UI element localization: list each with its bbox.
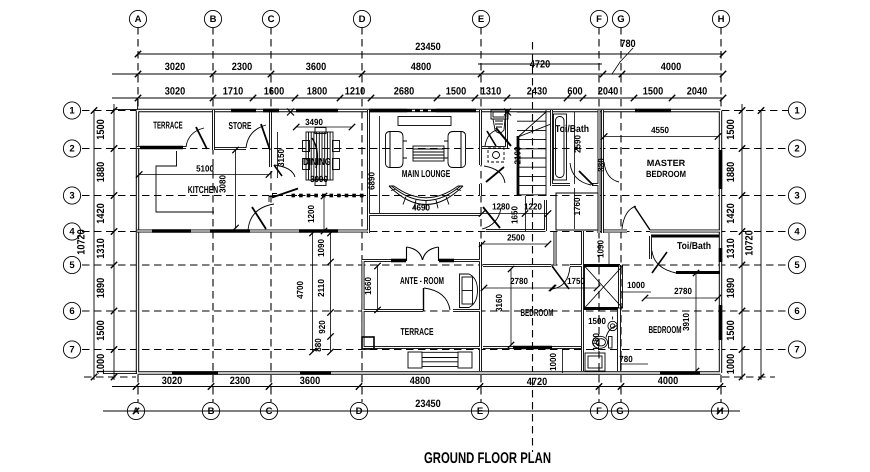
window X marker bbox=[287, 109, 294, 116]
door toibath1 bbox=[570, 163, 591, 185]
svg-text:4720: 4720 bbox=[527, 376, 547, 388]
svg-text:1500: 1500 bbox=[446, 86, 466, 98]
window bottom a bbox=[172, 371, 218, 375]
svg-text:5: 5 bbox=[69, 260, 75, 271]
jamb french door right bbox=[439, 259, 454, 263]
svg-text:ANTE - ROOM: ANTE - ROOM bbox=[400, 276, 444, 287]
svg-text:1890: 1890 bbox=[95, 278, 107, 298]
svg-text:C: C bbox=[268, 14, 275, 25]
grid row bottom stub left bbox=[84, 376, 136, 378]
svg-text:4: 4 bbox=[794, 227, 800, 238]
grid bubble 5 left bbox=[63, 256, 80, 273]
svg-text:F: F bbox=[596, 406, 602, 417]
grid bubble H top bbox=[712, 10, 729, 27]
grid bubble 2 right bbox=[788, 140, 805, 157]
svg-text:D: D bbox=[359, 14, 366, 25]
svg-text:2680: 2680 bbox=[394, 86, 414, 98]
svg-text:1090: 1090 bbox=[596, 240, 606, 258]
svg-text:G: G bbox=[616, 406, 623, 417]
dim 1000 hall bbox=[621, 291, 651, 293]
svg-text:TERRACE: TERRACE bbox=[401, 327, 434, 338]
chain tick marks bbox=[135, 51, 141, 57]
terrace steps right block bbox=[458, 352, 472, 368]
svg-text:1: 1 bbox=[794, 106, 800, 117]
STAIRS bbox=[517, 110, 623, 308]
dining chair bottom bbox=[315, 180, 326, 186]
svg-text:1000: 1000 bbox=[627, 280, 645, 290]
dim 1650 bbox=[525, 196, 527, 231]
door terrace-kitchen bbox=[186, 128, 204, 147]
svg-text:1880: 1880 bbox=[95, 162, 107, 182]
grid column F bbox=[598, 27, 600, 402]
dining chairs right bbox=[333, 141, 340, 152]
svg-text:10720: 10720 bbox=[76, 229, 88, 255]
svg-text:3600: 3600 bbox=[306, 61, 326, 73]
bathtub toibath1 bbox=[554, 114, 567, 180]
svg-text:B: B bbox=[210, 14, 217, 25]
grid bubble 1 right bbox=[788, 102, 805, 119]
bottom dim line total 23450 bbox=[103, 410, 740, 412]
svg-text:2: 2 bbox=[69, 144, 74, 155]
svg-text:2590: 2590 bbox=[573, 135, 583, 153]
window master top bbox=[635, 109, 671, 113]
stair lower flight box with cross bbox=[585, 266, 623, 308]
svg-text:1000: 1000 bbox=[548, 353, 558, 371]
svg-text:1600: 1600 bbox=[264, 86, 284, 98]
svg-text:1090: 1090 bbox=[316, 239, 326, 257]
dining chairs left bbox=[303, 141, 310, 152]
tv cabinet lounge bbox=[398, 117, 451, 126]
right dim line total 10720 bbox=[760, 110, 762, 380]
window dining top bbox=[296, 109, 338, 113]
svg-text:3: 3 bbox=[69, 191, 74, 202]
svg-text:3160: 3160 bbox=[494, 294, 504, 312]
grid row 3 bbox=[82, 195, 788, 197]
grid bubble D bottom bbox=[350, 402, 367, 419]
grid row bottom stub right bbox=[722, 376, 775, 378]
svg-text:3490: 3490 bbox=[305, 117, 323, 127]
svg-text:1500: 1500 bbox=[643, 86, 663, 98]
svg-text:2110: 2110 bbox=[316, 279, 326, 297]
svg-text:BEDROOM: BEDROOM bbox=[649, 325, 682, 336]
dim 1000 below bedroom1 bbox=[562, 350, 564, 373]
top dim line total 23450 bbox=[138, 53, 723, 55]
svg-text:3080: 3080 bbox=[218, 175, 228, 193]
svg-text:MAIN LOUNGE: MAIN LOUNGE bbox=[402, 169, 451, 180]
grid bubble 6 left bbox=[63, 302, 80, 319]
svg-text:3020: 3020 bbox=[165, 86, 185, 98]
grid bubble C top bbox=[262, 10, 279, 27]
grid column H bbox=[720, 27, 722, 402]
grid column A bbox=[137, 27, 139, 402]
grid column B bbox=[212, 27, 214, 402]
closet below toilet-bath 1 bbox=[556, 193, 598, 230]
svg-text:3910: 3910 bbox=[681, 313, 691, 331]
svg-text:2430: 2430 bbox=[527, 86, 547, 98]
bottom dim line spans bbox=[112, 386, 726, 388]
svg-text:1500: 1500 bbox=[725, 119, 737, 139]
door wc lobby bbox=[484, 166, 505, 183]
svg-text:4: 4 bbox=[69, 227, 75, 238]
grid bubble B bottom bbox=[202, 402, 219, 419]
serving hatch leaf bold bbox=[272, 189, 298, 198]
svg-text:Toi/Bath: Toi/Bath bbox=[677, 241, 711, 252]
grid bubble 3 left bbox=[63, 187, 80, 204]
window store top bbox=[231, 109, 256, 113]
leader line 780 top bbox=[612, 48, 633, 74]
svg-text:4690: 4690 bbox=[412, 203, 430, 213]
window kitchen row4 a bbox=[152, 229, 191, 233]
grid row 5 bbox=[82, 264, 788, 266]
svg-text:1500: 1500 bbox=[588, 316, 606, 326]
svg-text:780: 780 bbox=[620, 38, 635, 50]
pass-through railing bbox=[272, 195, 366, 197]
svg-text:10720: 10720 bbox=[744, 230, 756, 256]
terrace steps treads bbox=[422, 352, 458, 366]
door toibath2 bbox=[652, 251, 676, 273]
armchair left bbox=[390, 132, 403, 168]
stair up arrow diagonal bbox=[518, 112, 551, 137]
svg-text:5100: 5100 bbox=[196, 164, 214, 174]
svg-text:2040: 2040 bbox=[687, 86, 707, 98]
svg-text:1750: 1750 bbox=[567, 276, 585, 286]
grid bubble 3 right bbox=[788, 187, 805, 204]
stair stringer bold bbox=[517, 136, 520, 196]
grid bubble 6 right bbox=[788, 302, 805, 319]
svg-text:1760: 1760 bbox=[572, 198, 582, 216]
svg-text:1280: 1280 bbox=[591, 333, 601, 351]
dim 3910 bbox=[695, 273, 697, 371]
svg-text:E: E bbox=[478, 14, 484, 25]
dim 1660 ante bbox=[377, 266, 379, 310]
wc top bowl bbox=[493, 119, 505, 133]
dim 2590 bbox=[574, 112, 576, 184]
grid column E bbox=[480, 27, 482, 402]
INTERIOR DIMS bbox=[136, 112, 721, 374]
door master bottom bbox=[622, 206, 636, 229]
svg-text:1280: 1280 bbox=[492, 202, 510, 212]
GRID-DASHES bbox=[82, 27, 788, 452]
grid row 4 bbox=[82, 231, 788, 233]
ground line extension bottom-left bbox=[103, 371, 137, 373]
svg-text:F: F bbox=[596, 14, 602, 25]
sink small bath bbox=[608, 321, 617, 330]
svg-text:23450: 23450 bbox=[415, 398, 441, 410]
svg-text:1000: 1000 bbox=[725, 354, 737, 374]
grid bubble D top bbox=[353, 10, 370, 27]
svg-text:1420: 1420 bbox=[95, 203, 107, 223]
svg-text:H: H bbox=[717, 406, 724, 417]
svg-text:3020: 3020 bbox=[165, 61, 185, 73]
svg-text:600: 600 bbox=[567, 86, 582, 98]
svg-text:2780: 2780 bbox=[510, 276, 528, 286]
svg-text:1310: 1310 bbox=[481, 86, 501, 98]
grid bubble E bottom bbox=[471, 402, 488, 419]
terrace steps left block bbox=[408, 352, 422, 368]
jamb french door left bbox=[391, 259, 406, 263]
svg-text:1650: 1650 bbox=[510, 206, 520, 224]
ROOM TEXTS bbox=[153, 117, 711, 371]
svg-text:2780: 2780 bbox=[674, 286, 692, 296]
svg-text:4720: 4720 bbox=[530, 59, 550, 71]
grid bubble 1 left bbox=[63, 102, 80, 119]
section line bbox=[532, 42, 534, 452]
svg-text:4000: 4000 bbox=[658, 375, 678, 387]
svg-text:1210: 1210 bbox=[345, 86, 365, 98]
niche ante-room bbox=[460, 274, 478, 308]
svg-text:330: 330 bbox=[596, 158, 606, 171]
wall interior double lines bbox=[137, 110, 720, 371]
svg-text:2: 2 bbox=[794, 144, 799, 155]
door wc top bbox=[485, 130, 497, 146]
window lounge mullion dashes bbox=[407, 110, 436, 112]
window toibath2 right bbox=[719, 248, 723, 262]
svg-text:4700: 4700 bbox=[295, 281, 305, 299]
wc door leaf bold bbox=[496, 128, 511, 146]
dim 3150 bbox=[277, 132, 279, 178]
svg-text:D: D bbox=[356, 406, 363, 417]
dim 1750 bbox=[552, 287, 597, 289]
grid bubble E top bbox=[472, 10, 489, 27]
grid bubble G bottom bbox=[611, 402, 628, 419]
grid bubble A bottom bbox=[127, 402, 144, 419]
french double door right bbox=[423, 247, 439, 261]
right dim line segments bbox=[741, 104, 743, 380]
grid bubble G top bbox=[612, 10, 629, 27]
dim 1760 bbox=[574, 188, 576, 229]
grid column G bbox=[620, 27, 622, 402]
svg-text:1880: 1880 bbox=[725, 162, 737, 182]
door lounge-corridor bbox=[482, 208, 501, 229]
door small bath bbox=[606, 326, 618, 338]
svg-text:1: 1 bbox=[69, 106, 75, 117]
svg-text:A: A bbox=[133, 406, 140, 417]
svg-text:4800: 4800 bbox=[411, 61, 431, 73]
tick marks top chains bbox=[91, 51, 764, 414]
svg-text:1200: 1200 bbox=[306, 205, 316, 223]
window bottom c bbox=[660, 371, 700, 375]
svg-text:1660: 1660 bbox=[363, 277, 373, 295]
svg-text:BEDROOM: BEDROOM bbox=[646, 169, 686, 179]
svg-text:E: E bbox=[477, 406, 483, 417]
grid column C bbox=[270, 27, 272, 402]
svg-text:3150: 3150 bbox=[276, 149, 286, 167]
svg-text:7: 7 bbox=[69, 345, 74, 356]
svg-text:6: 6 bbox=[794, 306, 799, 317]
window row4 c bbox=[299, 229, 338, 233]
svg-text:MASTER: MASTER bbox=[647, 158, 686, 168]
svg-text:6: 6 bbox=[69, 306, 74, 317]
window lounge top 2 bbox=[436, 109, 476, 113]
svg-text:1310: 1310 bbox=[95, 238, 107, 258]
svg-text:1420: 1420 bbox=[725, 203, 737, 223]
dim 2780 bedroom2 bbox=[645, 297, 718, 299]
svg-text:3: 3 bbox=[794, 191, 799, 202]
svg-text:BEDROOM: BEDROOM bbox=[521, 308, 554, 319]
window bar C-D extra bbox=[263, 109, 279, 113]
dim 6890 bbox=[379, 116, 381, 213]
svg-text:1500: 1500 bbox=[95, 119, 107, 139]
sink dashed top bbox=[488, 148, 504, 162]
DOORS bbox=[186, 124, 676, 338]
wall exterior outline bbox=[138, 111, 721, 374]
window bottom b bbox=[300, 371, 331, 375]
wc top tank bbox=[491, 110, 508, 119]
window X marker E bbox=[504, 109, 511, 116]
curved sofa bbox=[389, 186, 463, 205]
dim garage segments bbox=[330, 233, 332, 352]
grid bubble 4 left bbox=[63, 223, 80, 240]
grid row 6 bbox=[82, 310, 788, 312]
french double door left bbox=[407, 247, 423, 261]
svg-text:2040: 2040 bbox=[598, 86, 618, 98]
grid bubble B top bbox=[204, 10, 221, 27]
WINDOWS (thick bars) bbox=[140, 109, 721, 374]
serving hatch step wall bbox=[269, 194, 277, 203]
svg-text:920: 920 bbox=[317, 320, 327, 333]
svg-text:1800: 1800 bbox=[307, 86, 327, 98]
top dim line segments bbox=[112, 97, 723, 99]
svg-text:DINING: DINING bbox=[303, 157, 331, 168]
svg-text:1500: 1500 bbox=[95, 320, 107, 340]
dim 3080 kitchen bbox=[235, 150, 237, 228]
dim 4700 garage total bbox=[312, 233, 314, 352]
grid bubble 5 right bbox=[788, 256, 805, 273]
door store-dining side bbox=[274, 165, 295, 177]
pillar at terrace corner bbox=[362, 337, 374, 349]
BUBBLES bbox=[63, 10, 805, 419]
dining table bbox=[306, 132, 333, 180]
svg-text:TERRACE: TERRACE bbox=[153, 121, 183, 132]
grid bubble 2 left bbox=[63, 140, 80, 157]
svg-text:1000: 1000 bbox=[95, 354, 107, 374]
dim 5100 kitchen bbox=[139, 174, 269, 176]
grid bubble C bottom bbox=[260, 402, 277, 419]
dim 2500 bbox=[482, 243, 548, 245]
svg-text:1220: 1220 bbox=[524, 202, 542, 212]
dim 1090 right of stairs bbox=[608, 233, 610, 264]
left dim line total 10720 bbox=[93, 110, 95, 380]
svg-text:H: H bbox=[718, 14, 725, 25]
svg-text:4550: 4550 bbox=[651, 125, 669, 135]
svg-text:KITCHEN: KITCHEN bbox=[188, 185, 219, 196]
svg-text:3020: 3020 bbox=[162, 375, 182, 387]
svg-text:2500: 2500 bbox=[507, 233, 525, 243]
svg-text:7: 7 bbox=[794, 345, 799, 356]
door bedroom1 bbox=[552, 267, 570, 289]
dim 1280-1220 bbox=[482, 213, 548, 215]
stair side rail bbox=[545, 110, 547, 196]
dim 2780 bedroom1 bbox=[484, 287, 553, 289]
stair treads bbox=[517, 112, 546, 195]
FURNITURE bbox=[156, 110, 617, 371]
svg-text:2300: 2300 bbox=[232, 61, 252, 73]
svg-text:23450: 23450 bbox=[415, 41, 441, 53]
top dim line spans bbox=[112, 73, 723, 75]
window terrace sill bbox=[140, 146, 183, 150]
svg-text:1710: 1710 bbox=[223, 86, 243, 98]
DIMENSION CHAINS bbox=[94, 54, 761, 411]
svg-text:880: 880 bbox=[313, 338, 323, 351]
door kitchen-hall bbox=[248, 204, 274, 230]
wc small bath bbox=[609, 337, 613, 349]
window kitchen row4 b bbox=[210, 229, 250, 233]
dining chair top bbox=[315, 128, 326, 134]
dim 3490 bbox=[296, 126, 352, 128]
grid bubble H bottom bbox=[711, 402, 728, 419]
door store bbox=[246, 125, 266, 148]
dim 3160 bbox=[510, 269, 512, 345]
svg-text:780: 780 bbox=[619, 354, 632, 364]
grid bubble A top bbox=[129, 10, 146, 27]
svg-text:3000: 3000 bbox=[310, 174, 328, 184]
kitchen counter bbox=[156, 151, 214, 212]
svg-text:Toi/Bath: Toi/Bath bbox=[555, 124, 589, 135]
svg-text:1890: 1890 bbox=[725, 278, 737, 298]
svg-text:5: 5 bbox=[794, 260, 800, 271]
grid bubble 7 right bbox=[788, 341, 805, 358]
grid row 1 bbox=[82, 110, 136, 112]
grid bubble 7 left bbox=[63, 341, 80, 358]
4720 strike line bbox=[478, 63, 602, 65]
svg-text:2100: 2100 bbox=[513, 147, 523, 165]
dim 1200 bbox=[323, 196, 325, 231]
svg-text:1500: 1500 bbox=[725, 320, 737, 340]
grid row 7 bbox=[82, 349, 788, 351]
dim 4550 master bbox=[604, 136, 718, 138]
svg-text:STORE: STORE bbox=[229, 121, 252, 132]
svg-text:C: C bbox=[266, 406, 273, 417]
svg-text:A: A bbox=[135, 14, 142, 25]
coffee table bbox=[413, 146, 444, 161]
svg-text:GROUND FLOOR PLAN: GROUND FLOOR PLAN bbox=[424, 450, 551, 467]
left dim line segments bbox=[113, 104, 115, 380]
grid row 2 bbox=[82, 148, 788, 150]
svg-text:4800: 4800 bbox=[410, 375, 430, 387]
window bedroom2 right bbox=[719, 305, 723, 340]
armchair right bbox=[448, 132, 461, 168]
svg-text:B: B bbox=[208, 406, 215, 417]
svg-text:G: G bbox=[617, 14, 624, 25]
svg-text:2300: 2300 bbox=[230, 375, 250, 387]
svg-text:4000: 4000 bbox=[661, 61, 681, 73]
WALLS bbox=[137, 109, 721, 374]
svg-text:1310: 1310 bbox=[725, 238, 737, 258]
grid bubble F top bbox=[590, 10, 607, 27]
grid bubble F bottom bbox=[590, 402, 607, 419]
door ante-room bbox=[424, 288, 450, 310]
window master right bbox=[719, 150, 723, 189]
dim 780 bath bbox=[621, 363, 648, 365]
shower small bath bbox=[585, 353, 605, 371]
window bedroom1 sill bbox=[513, 346, 552, 350]
grid bubble 4 right bbox=[788, 223, 805, 240]
top wall extension top-left bbox=[113, 99, 138, 110]
door master side bbox=[604, 162, 619, 182]
svg-text:3600: 3600 bbox=[300, 375, 320, 387]
svg-text:6890: 6890 bbox=[367, 172, 377, 190]
grid column D bbox=[361, 27, 363, 402]
window lounge top 1 bbox=[369, 109, 407, 113]
